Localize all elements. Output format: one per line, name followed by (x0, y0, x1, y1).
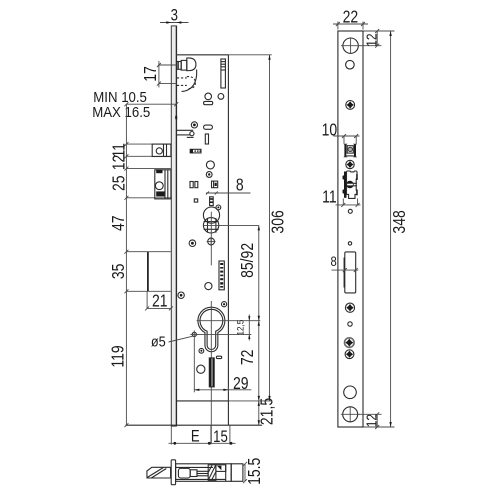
screw boss 2 (206, 172, 212, 178)
phillips screw 2 (346, 160, 354, 168)
small hole pair + slot under top bolt (204, 93, 224, 105)
circle near slot (197, 365, 205, 373)
svg-text:12: 12 (363, 414, 380, 427)
euro cylinder hole (198, 307, 225, 352)
chain extension lines (126, 144, 172, 291)
svg-text:72: 72 (239, 350, 258, 366)
dim 3 (faceplate thickness) (160, 6, 189, 25)
circle mid (206, 161, 214, 169)
countersunk screw hole top (341, 37, 360, 54)
small vertical slot (205, 134, 208, 144)
svg-text:85/92: 85/92 (239, 243, 258, 278)
svg-text:3: 3 (171, 6, 178, 25)
dim 12 top (360, 29, 382, 48)
dim MIN 10.5 / MAX 16.5 (92, 89, 178, 121)
dim 348 (364, 31, 410, 427)
svg-text:21,5: 21,5 (258, 398, 277, 425)
svg-text:17: 17 (142, 66, 161, 82)
svg-text:11: 11 (322, 188, 337, 207)
screw boss 6 (222, 302, 227, 307)
svg-text:15.5: 15.5 (246, 458, 265, 485)
chain labels (109, 143, 129, 368)
deadbolt slot (344, 252, 356, 293)
striped small rect (210, 197, 214, 206)
svg-text:8: 8 (330, 254, 336, 269)
small hole above bolt slot (348, 242, 351, 245)
crosshair hole below follower (207, 237, 216, 246)
svg-text:12: 12 (110, 155, 129, 171)
dim 12 bottom (359, 412, 382, 429)
roller catch (protruding) (152, 144, 171, 156)
screw boss 5 (178, 292, 184, 298)
dotted adjuster rect (190, 149, 201, 153)
cylinder centre extension line (197, 320, 261, 322)
left dimension chain line (124, 104, 128, 427)
phillips screw (346, 101, 355, 110)
small hole below latch (348, 209, 352, 213)
dim 85/92 (239, 225, 260, 320)
main latch keep on plate (343, 171, 358, 198)
dim 29 (194, 339, 251, 394)
patterned square (212, 181, 218, 188)
faceplate (edge view, 3mm strip) (171, 26, 176, 427)
dim E / 15 (169, 425, 236, 446)
svg-text:12,5: 12,5 (235, 320, 246, 336)
case bottom view body (176, 464, 232, 482)
svg-text:E: E (191, 427, 200, 446)
dim 21 with thick reference line (145, 252, 173, 311)
phillips screw pair (345, 338, 355, 359)
svg-text:35: 35 (110, 263, 129, 279)
rounded slot (204, 125, 213, 129)
top pin bolt (extended) (177, 58, 196, 71)
small hole (348, 322, 352, 326)
two small windows (190, 182, 193, 188)
svg-text:306: 306 (269, 210, 288, 234)
svg-text:25: 25 (110, 175, 129, 191)
svg-text:348: 348 (390, 210, 409, 234)
tiny square (194, 199, 197, 202)
dim 306 (176, 55, 287, 401)
dark vertical slot (209, 358, 214, 387)
dim 8 (bolt) (330, 254, 358, 272)
centre line vertical (210, 212, 212, 444)
dim 15.5 (243, 458, 265, 485)
main latch (protruding) (155, 170, 171, 199)
latch bar inside case (177, 130, 194, 137)
case front nub (175, 116, 177, 119)
svg-text:47: 47 (110, 215, 129, 231)
svg-text:22: 22 (343, 8, 359, 27)
small hole (205, 283, 212, 290)
svg-text:MAX 16.5: MAX 16.5 (92, 104, 150, 121)
svg-text:15: 15 (213, 427, 228, 446)
lock case outline (126, 55, 263, 425)
svg-text:8: 8 (236, 176, 244, 195)
countersunk screw hole bottom (341, 406, 360, 422)
small hole (346, 60, 355, 69)
latch nose (bottom view) (147, 467, 171, 478)
faceplate front (338, 31, 363, 427)
screw boss (191, 122, 197, 128)
top pin bolt retracted (dashed) (177, 70, 197, 92)
svg-text:10: 10 (322, 121, 338, 140)
rounded slot small (216, 356, 221, 358)
dim 21,5 (258, 398, 277, 425)
handle follower (double hub) (203, 207, 219, 233)
dim 11 (latch) (322, 188, 360, 207)
plain hole (344, 386, 357, 399)
svg-text:12: 12 (363, 33, 380, 46)
roller keep on plate (343, 144, 357, 157)
fixing hole o5 with leader (151, 330, 198, 349)
dim 12,5 (235, 315, 250, 341)
screw boss 3 (216, 205, 221, 210)
screw boss 7 (199, 348, 204, 353)
rear box (bottom view) (231, 464, 243, 482)
o5 extension line (197, 333, 252, 335)
svg-text:ø5: ø5 (151, 332, 166, 349)
spring slot top right (221, 59, 226, 88)
dim 8 (spindle square) (206, 176, 251, 195)
dim 10 + roller keep (322, 121, 360, 143)
svg-text:29: 29 (233, 375, 249, 394)
svg-text:21: 21 (152, 292, 168, 311)
screw boss 4 (189, 240, 196, 247)
follower centre extension line (204, 224, 259, 226)
dim 72 (239, 321, 260, 401)
dim 22 (333, 8, 368, 29)
brand stamp slot (219, 261, 224, 290)
svg-text:119: 119 (109, 345, 128, 367)
phillips screw 3 (345, 303, 354, 312)
faceplate cross-section (bottom view) (171, 460, 175, 485)
dim 17 (pin throw) (142, 61, 176, 87)
